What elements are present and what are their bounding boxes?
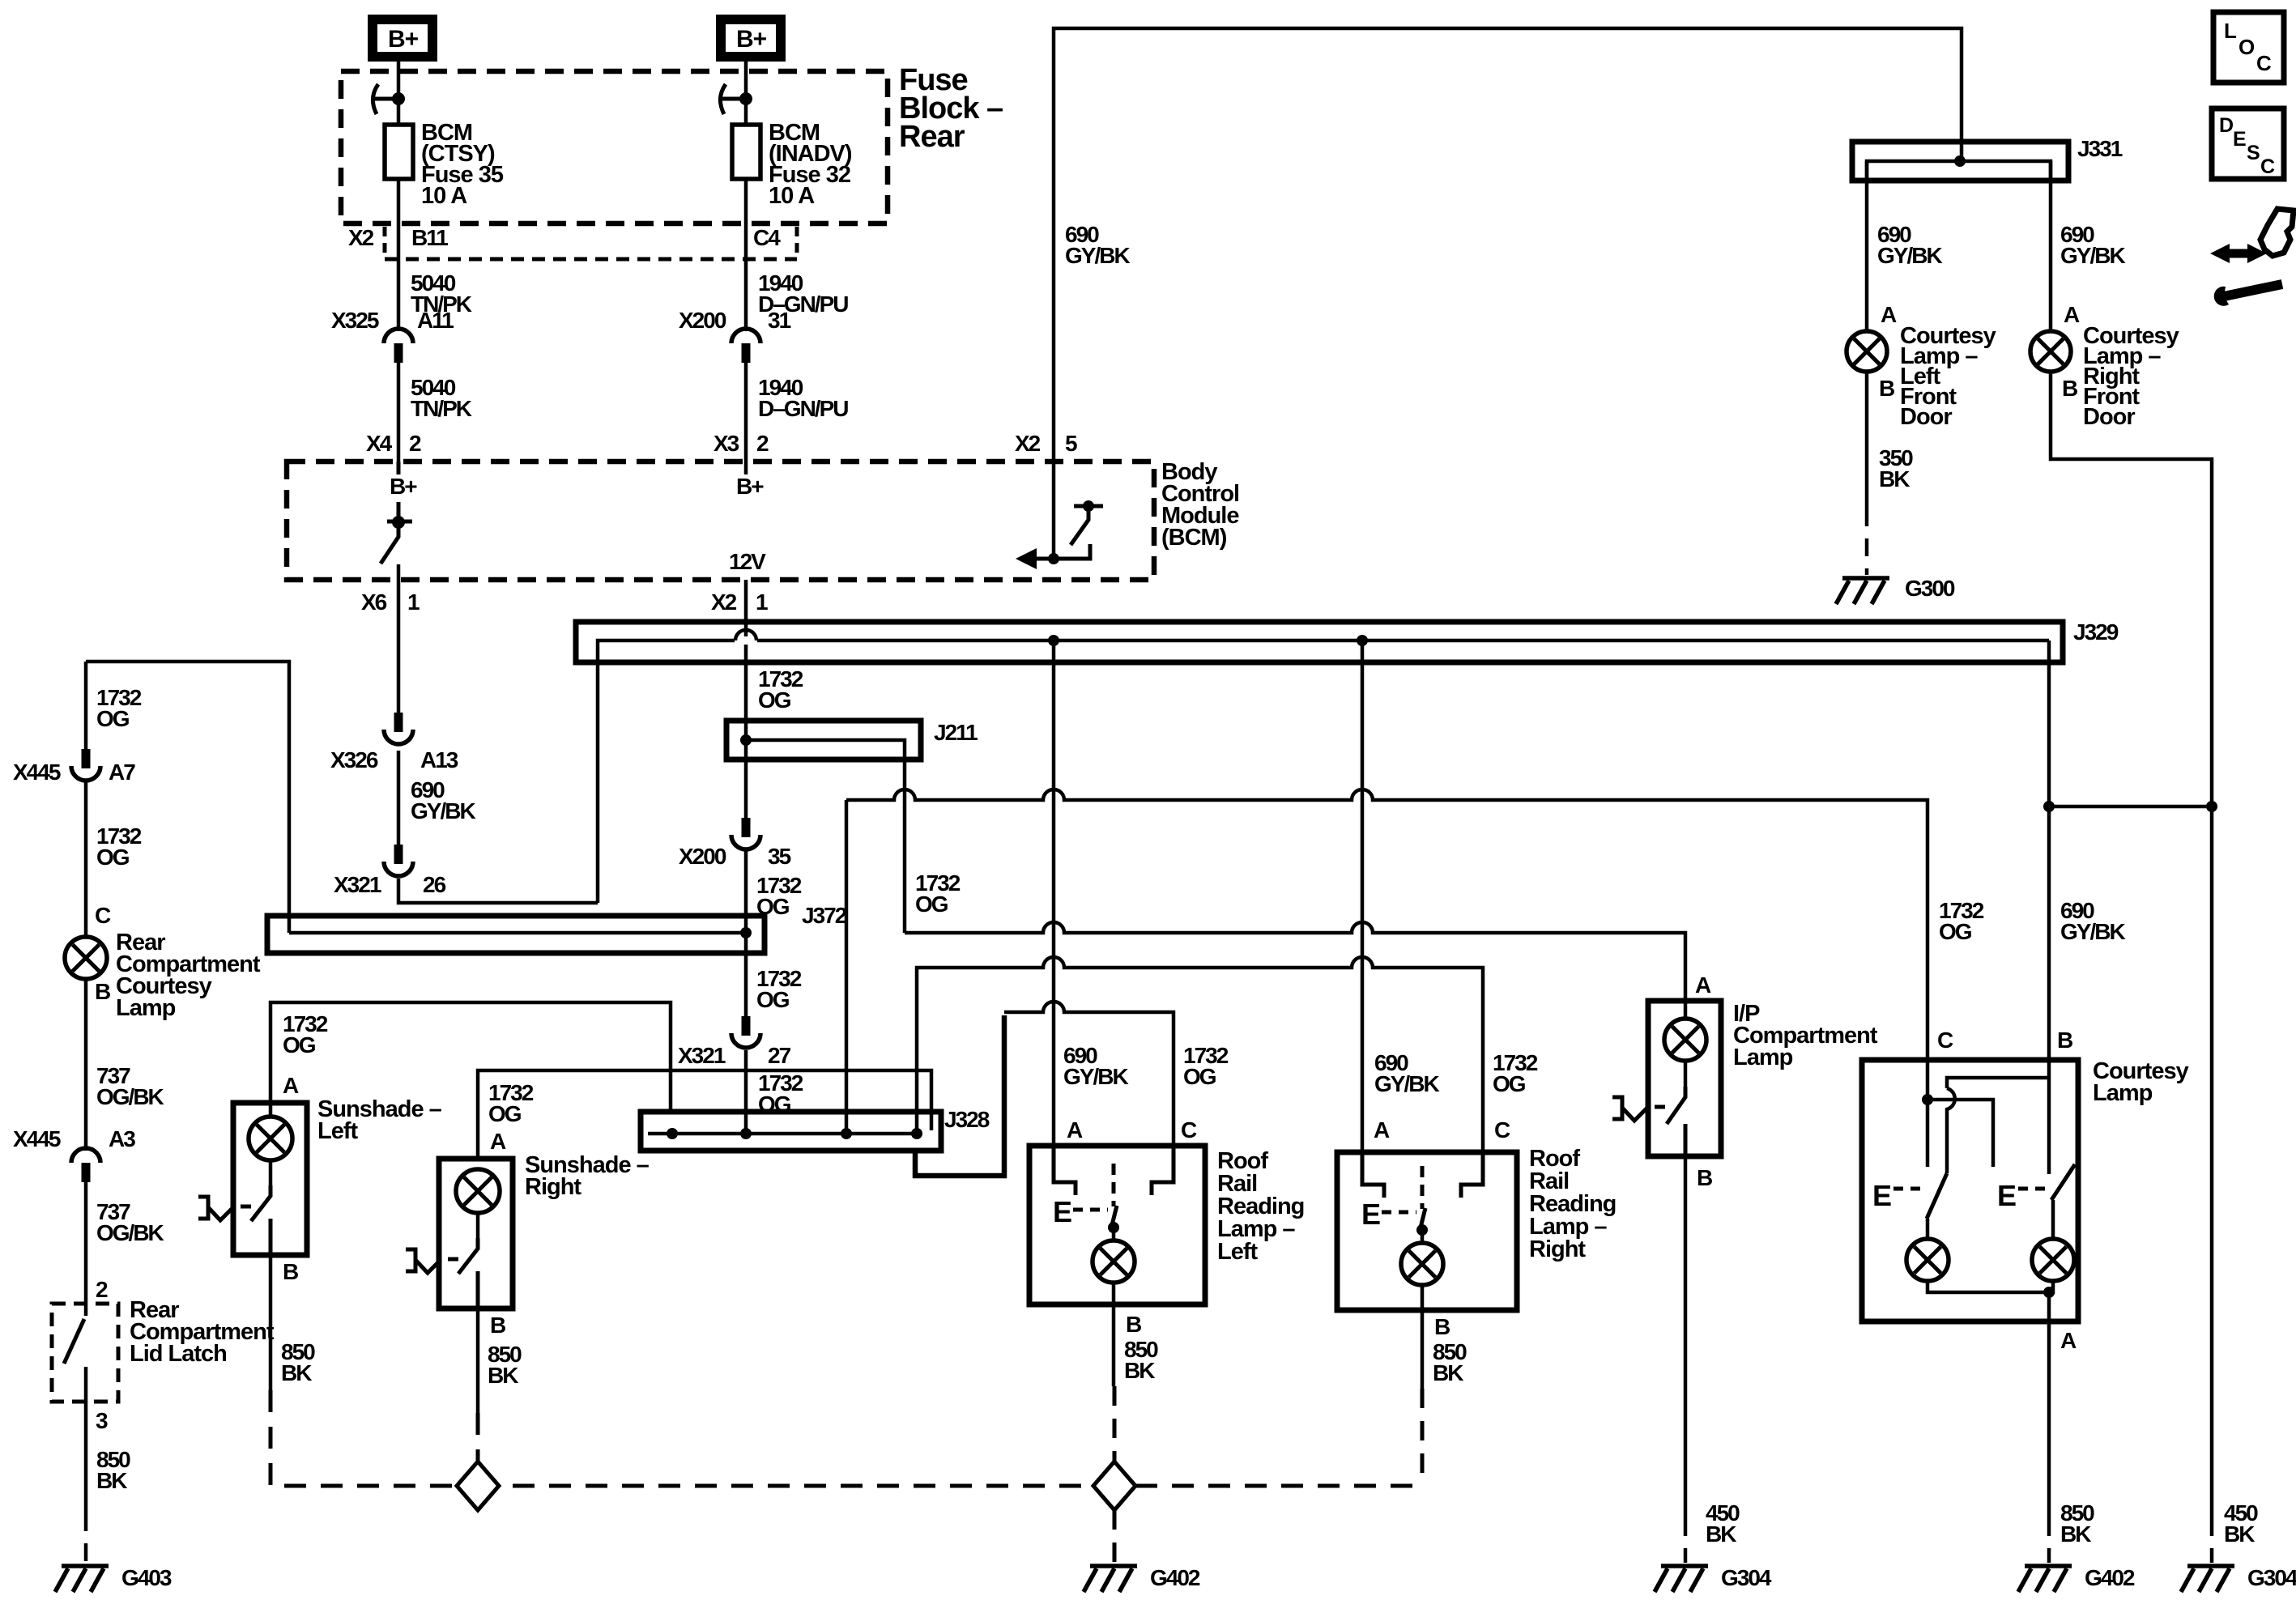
sunshade right door actuator	[406, 1249, 458, 1273]
svg-text:3: 3	[96, 1408, 108, 1433]
svg-text:A: A	[283, 1073, 299, 1098]
svg-text:A: A	[2064, 302, 2080, 327]
wire J329 right end down to courtesy lamp B pin	[2047, 640, 2051, 1060]
svg-text:850BK: 850BK	[488, 1342, 522, 1388]
svg-text:E: E	[1997, 1179, 2017, 1212]
DESC icon box	[2212, 109, 2284, 179]
wire B+ to fuse 32	[744, 62, 748, 125]
wire X326 to X321 pin26	[397, 751, 401, 846]
svg-text:G402: G402	[2085, 1565, 2135, 1590]
courtesy lamp internal wiring	[1926, 1060, 1930, 1167]
svg-text:2: 2	[409, 431, 421, 456]
splice diamond (roof left / G402)	[1093, 1462, 1135, 1510]
wire X200/35 to J372	[744, 851, 748, 933]
svg-text:B: B	[1697, 1165, 1712, 1190]
wire sunshade left B to ground bus	[269, 1255, 273, 1390]
wire 1732 OG J211 to I/P compartment lamp A (hops x=1301,1682)	[905, 922, 1685, 1001]
body control module (BCM) dashed box	[287, 462, 1154, 580]
junction J331	[1852, 142, 2068, 181]
J329 junction dot to roof rail left	[1048, 635, 1059, 646]
fuse clip symbol (fuse 32)	[720, 84, 746, 114]
inline connector X200/31	[731, 329, 760, 363]
svg-text:J328: J328	[944, 1107, 990, 1132]
courtesy lamp assembly box	[1862, 1060, 2078, 1321]
wire X2 pin5 into BCM	[1052, 462, 1056, 559]
svg-text:450BK: 450BK	[1706, 1500, 1740, 1547]
inline connector X445/A3	[71, 1148, 100, 1182]
svg-text:S: S	[2247, 142, 2260, 164]
wire courtesy lamp right front door B to right column	[2051, 372, 2212, 1518]
svg-text:2: 2	[96, 1277, 108, 1302]
sunshade left door actuator	[198, 1197, 251, 1220]
wire 690 GY/BK J329 to roof rail right A	[1361, 640, 1365, 1152]
courtesy lamp bulb 2	[2032, 1239, 2074, 1281]
svg-text:26: 26	[423, 872, 446, 897]
svg-text:A: A	[2060, 1328, 2077, 1353]
svg-text:C: C	[2256, 51, 2272, 75]
ground G300	[1836, 578, 1889, 604]
ground G402	[1084, 1566, 1137, 1592]
svg-text:X3: X3	[714, 431, 739, 456]
J211 junction dot	[740, 734, 752, 746]
svg-text:B: B	[95, 979, 110, 1004]
J331 junction dot	[1954, 155, 1966, 167]
svg-text:A: A	[490, 1129, 506, 1154]
BCM output driver symbol	[1022, 506, 1103, 559]
svg-text:A: A	[1067, 1117, 1083, 1143]
J328 dot to roof right C	[911, 1128, 922, 1139]
wire 1732 OG sunshade right A feed	[478, 1070, 931, 1159]
svg-text:B11: B11	[411, 225, 448, 250]
wire I/P lamp B to G304	[1684, 1156, 1688, 1518]
svg-text:B: B	[490, 1313, 505, 1338]
svg-text:B: B	[2057, 1028, 2072, 1053]
fuse block rear (dashed enclosure)	[341, 71, 888, 223]
wire B+ to fuse 35	[397, 62, 401, 125]
wire A into I/P lamp	[1684, 1001, 1688, 1020]
svg-text:G402: G402	[1150, 1565, 1200, 1590]
wire A into sunshade left	[269, 1103, 273, 1119]
svg-text:B+: B+	[388, 26, 419, 53]
courtesy lamp right front door bulb	[2030, 331, 2071, 372]
J329 junction dot to roof rail right	[1357, 635, 1368, 646]
svg-text:X2: X2	[1015, 431, 1041, 456]
wire X321/27 to J328	[744, 1050, 748, 1134]
svg-text:X321: X321	[334, 872, 381, 897]
svg-text:B: B	[1879, 376, 1894, 401]
svg-text:J372: J372	[802, 903, 847, 928]
svg-text:E: E	[1053, 1195, 1072, 1228]
ground G304 (right)	[2181, 1566, 2234, 1592]
svg-text:C: C	[1181, 1117, 1197, 1143]
svg-text:X200: X200	[679, 844, 726, 869]
inline connector X326/A13	[384, 713, 413, 744]
svg-text:X321: X321	[678, 1043, 726, 1068]
wire courtesy lamp left to G300	[1865, 372, 1869, 509]
svg-text:G300: G300	[1905, 576, 1955, 601]
wire X200 to BCM X3 pin 2	[744, 363, 748, 462]
inline connector X325/A11	[384, 329, 413, 363]
svg-text:A3: A3	[109, 1126, 135, 1151]
roof rail reading lamp left box	[1029, 1146, 1205, 1304]
roof right switch	[1421, 1166, 1425, 1209]
fuse F32 BCM (INADV) 10A	[732, 125, 760, 179]
svg-text:L: L	[2224, 19, 2237, 43]
svg-text:X200: X200	[679, 308, 726, 333]
sunshade left switch	[269, 1160, 273, 1189]
svg-text:C: C	[1937, 1028, 1953, 1053]
sunshade left lamp bulb	[249, 1117, 292, 1160]
wire 1732 OG J328 to roof rail left C (hops x=1301)	[1004, 1002, 1174, 1146]
svg-text:X6: X6	[361, 589, 387, 615]
I/P compartment lamp bulb	[1664, 1019, 1706, 1061]
junction dot courtesy B feed	[2043, 801, 2055, 812]
svg-text:350BK: 350BK	[1879, 445, 1913, 491]
svg-text:D: D	[2219, 114, 2234, 137]
svg-text:X2: X2	[348, 225, 374, 250]
svg-text:A: A	[1695, 972, 1711, 998]
I/P compartment lamp box	[1648, 1001, 1721, 1156]
svg-text:C4: C4	[753, 225, 781, 250]
roof left switch	[1112, 1164, 1116, 1206]
J328 dot to courtesy lamp	[841, 1128, 852, 1139]
wire J331 to courtesy lamp left front door	[1865, 161, 1869, 331]
svg-text:B: B	[1434, 1314, 1450, 1339]
wire lid latch to G403	[84, 1402, 88, 1513]
sunshade right lamp assembly box	[439, 1159, 513, 1308]
svg-text:X326: X326	[330, 747, 378, 772]
svg-text:31: 31	[768, 308, 791, 333]
svg-text:2: 2	[756, 431, 769, 456]
dashed ground bus 850 BK	[476, 1484, 1093, 1488]
wire J331 to courtesy lamp right front door	[2049, 161, 2053, 331]
svg-text:B+: B+	[736, 474, 764, 499]
svg-text:35: 35	[768, 844, 791, 869]
wire 1732 OG to rear compartment courtesy lamp	[86, 662, 289, 933]
svg-text:O: O	[2238, 35, 2255, 59]
wire X445/A7 to lamp C	[84, 782, 88, 937]
svg-text:G304: G304	[2247, 1565, 2296, 1590]
svg-text:B+: B+	[390, 474, 417, 499]
svg-text:B+: B+	[736, 26, 767, 53]
svg-text:E: E	[2233, 128, 2247, 151]
svg-text:5: 5	[1065, 431, 1077, 456]
wire roof right B to ground bus	[1421, 1285, 1425, 1389]
wire sunshade right B to ground bus diamond	[476, 1308, 480, 1413]
svg-text:X445: X445	[13, 1126, 61, 1151]
roof rail reading lamp right box	[1337, 1152, 1517, 1310]
wrench icon	[2224, 284, 2282, 296]
sunshade right switch	[476, 1212, 480, 1241]
svg-text:850BK: 850BK	[1124, 1337, 1158, 1383]
ground G403	[55, 1566, 109, 1592]
svg-text:C: C	[1494, 1117, 1510, 1143]
inline connector X445/A7	[71, 749, 100, 781]
ground G402 (courtesy lamp)	[2018, 1566, 2072, 1592]
wire switch to X6 pin1	[397, 564, 401, 713]
svg-text:A11: A11	[417, 308, 454, 333]
wire 1732 OG sunshade left A feed	[270, 1002, 671, 1112]
svg-text:X445: X445	[13, 760, 61, 785]
svg-text:J331: J331	[2077, 136, 2123, 161]
junction J211 (1732 OG splice)	[726, 721, 921, 760]
rear compartment courtesy lamp bulb	[65, 937, 107, 979]
courtesy lamp left front door bulb	[1847, 331, 1887, 372]
inline connector X200/35	[731, 818, 760, 849]
J328 dot from sunshade left	[667, 1128, 678, 1139]
roof rail reading lamp left bulb	[1093, 1240, 1135, 1283]
BCM internal switch	[381, 462, 412, 564]
wire 1732 OG line to courtesy lamp C (hops x=1117,1301,1682)	[846, 789, 1928, 1060]
svg-text:B: B	[283, 1259, 298, 1284]
roof left lamp contacts	[1054, 1146, 1174, 1195]
fuse block connector X2 row	[385, 227, 797, 259]
svg-text:850BK: 850BK	[2060, 1500, 2094, 1547]
svg-text:E: E	[1872, 1179, 1892, 1212]
svg-text:12V: 12V	[729, 549, 766, 574]
wire 1732 OG J328 to roof rail right C (hops x=1301,1682)	[917, 957, 1483, 1152]
wire 690 GY/BK top feed to J331	[1054, 28, 1962, 462]
wire 690 GY/BK J329 to roof rail left A	[1052, 640, 1056, 1146]
junction dot right column	[2206, 801, 2217, 812]
svg-text:G403: G403	[121, 1565, 172, 1590]
lid latch switch blade	[64, 1319, 84, 1364]
wire lamp B to X445/A3	[84, 979, 88, 1151]
wire fuse 32 to connector X200	[744, 179, 748, 331]
svg-text:X325: X325	[331, 308, 379, 333]
wire fuse 35 to connector X325	[397, 179, 401, 331]
svg-text:1: 1	[407, 589, 420, 615]
svg-text:J211: J211	[934, 720, 978, 745]
junction J328 (1732 OG splice)	[641, 1112, 941, 1151]
svg-text:A: A	[1374, 1117, 1390, 1143]
wire branch to courtesy lamp B	[2049, 805, 2212, 809]
svg-text:1: 1	[756, 589, 768, 615]
sunshade left lamp assembly box	[233, 1103, 307, 1255]
svg-text:G304: G304	[1721, 1565, 1772, 1590]
junction J372 (1732 OG splice)	[267, 916, 765, 953]
inline connector X321/26	[384, 845, 413, 876]
svg-text:J329: J329	[2073, 619, 2119, 645]
J328 dot from X321/27	[740, 1128, 752, 1139]
svg-text:E: E	[1361, 1198, 1381, 1231]
I/P lamp door actuator	[1612, 1097, 1665, 1121]
J372 junction dot	[740, 927, 752, 938]
svg-text:X4: X4	[366, 431, 393, 456]
dashed drop to G402	[1113, 1510, 1117, 1563]
power B+ feed 1	[373, 19, 432, 57]
svg-text:850BK: 850BK	[1433, 1339, 1467, 1385]
wire X321/26 jog to J329 left drop	[398, 879, 598, 903]
roof right lamp contacts	[1362, 1152, 1483, 1198]
ground G304 (I/P lamp)	[1655, 1566, 1708, 1592]
svg-text:A13: A13	[420, 747, 458, 772]
svg-text:B: B	[1126, 1312, 1141, 1337]
inline connector X321/27	[731, 1016, 760, 1048]
sunshade right lamp bulb	[456, 1169, 500, 1213]
svg-text:C: C	[95, 903, 111, 928]
rear compartment lid latch (dashed box)	[52, 1304, 118, 1402]
svg-text:B: B	[2062, 376, 2077, 401]
I/P lamp switch	[1684, 1061, 1688, 1090]
splice diamond (sunshade right)	[457, 1462, 499, 1510]
fuse clip symbol (fuse 35)	[373, 84, 398, 114]
svg-text:27: 27	[768, 1043, 791, 1068]
LOC icon box	[2213, 12, 2284, 83]
wire X325 to BCM X4 pin 2	[397, 363, 401, 462]
svg-text:X2: X2	[711, 589, 737, 615]
wire J372 to X321 pin27	[744, 933, 748, 1018]
svg-text:450BK: 450BK	[2224, 1500, 2258, 1547]
wire X445/A3 to lid latch pin 2	[84, 1182, 88, 1316]
svg-text:C: C	[2260, 155, 2275, 178]
roof rail reading lamp right bulb	[1401, 1243, 1443, 1285]
fuse F35 BCM (CTSY) 10A	[385, 125, 413, 179]
hand/arrow service icon	[2260, 209, 2294, 256]
svg-text:850BK: 850BK	[281, 1339, 315, 1385]
power B+ feed 2	[721, 19, 781, 57]
svg-text:850BK: 850BK	[96, 1447, 130, 1493]
wire J211 to X200 pin35	[744, 740, 748, 819]
wire roof left B to ground bus	[1112, 1283, 1116, 1386]
courtesy lamp bulb 1	[1906, 1239, 1949, 1281]
svg-text:A7: A7	[109, 760, 135, 785]
wire X2 pin1 12V output	[744, 580, 748, 622]
junction J329 (690 GY/BK splice)	[576, 622, 2063, 662]
svg-text:A: A	[1881, 302, 1897, 327]
courtesy lamp bulbs common to pin A	[1928, 1281, 2053, 1292]
wire 1732 OG BCM 12V to J211	[744, 622, 748, 636]
